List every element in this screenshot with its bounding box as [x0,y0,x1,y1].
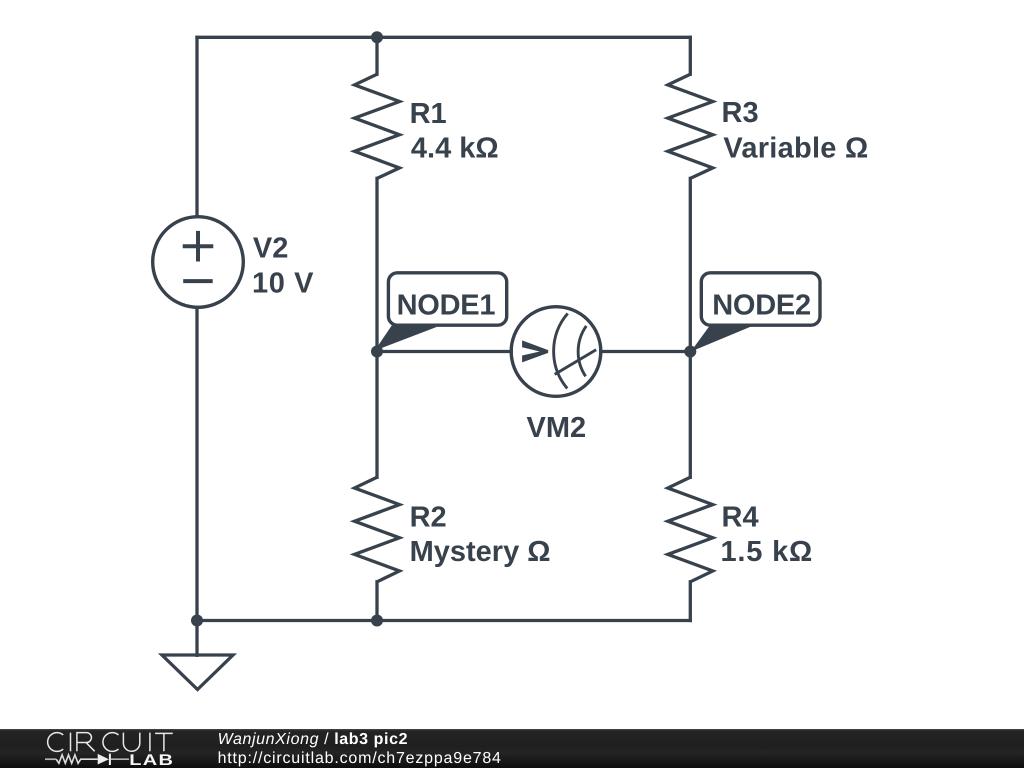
label R3 value [722,97,869,164]
wire NODE1 to R2 top [375,352,378,478]
svg-text:10 V: 10 V [252,268,314,300]
voltmeter VM2 [511,307,601,397]
wire ground stem [195,621,198,656]
svg-text:Mystery Ω: Mystery Ω [410,536,551,568]
wire bottom rail [197,619,690,622]
svg-text:WanjunXiong / lab3 pic2: WanjunXiong / lab3 pic2 [218,731,409,748]
svg-text:Variable Ω: Variable Ω [723,132,868,164]
logo resistor squiggle [45,755,98,763]
svg-text:NODE1: NODE1 [397,290,496,322]
logo CIRCUIT wordmark [48,733,173,752]
junction at top rail / R1 [371,31,383,43]
resistor R1 [355,74,400,178]
resistor R2 [355,477,400,582]
ground [162,655,233,690]
junction at bottom rail / ground [191,615,203,627]
svg-text:http://circuitlab.com/ch7ezppa: http://circuitlab.com/ch7ezppa9e784 [218,750,502,767]
wire R3 bottom to NODE2 [689,178,692,351]
logo diode [98,754,129,765]
svg-text:R2: R2 [410,501,447,533]
node NODE2 junction [684,346,696,358]
svg-text:VM2: VM2 [527,412,587,444]
wire R4 bottom to bottom rail [689,582,692,621]
node NODE1 label bubble [375,273,507,351]
wire R1 bottom to NODE1 [375,178,378,351]
wire NODE1 to VM2 left terminal [377,350,511,353]
label R4 value [721,501,814,568]
svg-text:R3: R3 [722,97,759,129]
wire left rail upper (top rail to V2 plus terminal) [195,37,198,216]
node NODE2 label bubble [691,273,820,352]
svg-text:NODE2: NODE2 [712,290,811,322]
node NODE1 junction [371,346,383,358]
svg-text:1.5 kΩ: 1.5 kΩ [721,536,814,568]
wire R3 top lead [689,37,692,74]
label V2 value [252,232,314,299]
wire left rail lower (V2 minus terminal to bottom rail) [195,308,198,621]
svg-text:R4: R4 [722,501,759,533]
resistor R4 [668,477,713,582]
resistor R3 [668,74,713,178]
wire R1 top lead [375,37,378,74]
wire VM2 right terminal to NODE2 [601,350,691,353]
voltage source V2 [153,217,244,308]
svg-text:V2: V2 [253,232,288,264]
wire NODE2 to R4 top [689,352,692,478]
svg-text:LAB: LAB [129,752,174,768]
svg-text:R1: R1 [410,98,447,130]
wire R2 bottom to bottom rail [375,582,378,621]
wire top rail [197,36,690,39]
label R1 value [410,98,499,165]
label R2 value [410,501,551,568]
footer bar [0,729,1024,768]
junction at bottom rail / R2 [371,615,383,627]
svg-text:4.4 kΩ: 4.4 kΩ [411,133,499,165]
